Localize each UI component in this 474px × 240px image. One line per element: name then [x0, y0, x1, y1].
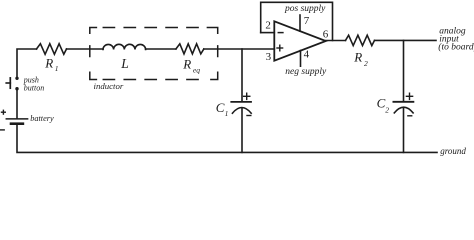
resistor Req [176, 44, 204, 54]
svg-text:(to board): (to board) [438, 42, 474, 53]
resistor R2 [346, 35, 375, 45]
wire: left vertical from top corner to push button [17, 49, 37, 77]
capacitor C2 [393, 93, 413, 116]
svg-text:eq: eq [193, 65, 200, 74]
label C2 [377, 96, 390, 115]
svg-text:2: 2 [364, 59, 368, 68]
wire: R1 to inductor [67, 48, 104, 50]
svg-text:2: 2 [265, 19, 271, 31]
wire: feedback loop pin 6 to pin 2 [261, 2, 333, 40]
wire: inductor to Req [146, 48, 176, 50]
wire: C2 to ground rail [403, 108, 405, 153]
inductor L [103, 44, 146, 49]
resistor R1 [37, 44, 67, 55]
svg-text:R: R [44, 55, 53, 70]
push button [6, 77, 19, 91]
capacitor C1 [231, 93, 251, 115]
wire: battery to ground rail [17, 125, 437, 152]
svg-text:battery: battery [30, 114, 54, 123]
wire: R2 to output terminal [375, 39, 437, 41]
svg-text:R: R [182, 56, 191, 71]
label push button [23, 75, 44, 92]
inductor equivalent dashed box [90, 28, 218, 80]
wire: pin 2 lead [261, 32, 275, 34]
svg-text:L: L [120, 56, 129, 71]
wire: pin 7 supply stub [299, 15, 301, 31]
svg-text:pos supply: pos supply [284, 4, 326, 14]
svg-text:C: C [216, 100, 225, 115]
svg-text:ground: ground [440, 146, 466, 156]
svg-text:neg supply: neg supply [285, 67, 327, 77]
wire: Req to op-amp pin 3 [204, 48, 274, 50]
wire: C2 branch from output wire [403, 40, 405, 101]
wire: C1 to ground rail [241, 108, 243, 152]
svg-text:R: R [353, 49, 362, 64]
svg-text:button: button [24, 84, 44, 93]
wire: op-amp output to R2 [326, 40, 346, 42]
label Req [182, 56, 200, 74]
battery [1, 110, 28, 130]
svg-text:1: 1 [55, 64, 59, 73]
svg-text:3: 3 [266, 51, 272, 63]
label analog input (to board) [438, 26, 474, 52]
op-amp U1 [274, 21, 326, 60]
label R1 [44, 55, 58, 73]
label C1 [216, 100, 229, 118]
label R2 [353, 49, 368, 67]
svg-text:7: 7 [304, 15, 310, 27]
svg-text:4: 4 [304, 49, 310, 61]
svg-text:inductor: inductor [94, 81, 124, 91]
wire: C1 branch from main wire [241, 49, 243, 101]
svg-text:6: 6 [323, 29, 329, 41]
wire: pin 4 supply stub [300, 51, 302, 67]
wire: push button to battery [16, 90, 18, 118]
svg-text:1: 1 [225, 109, 229, 118]
svg-text:2: 2 [385, 106, 389, 115]
